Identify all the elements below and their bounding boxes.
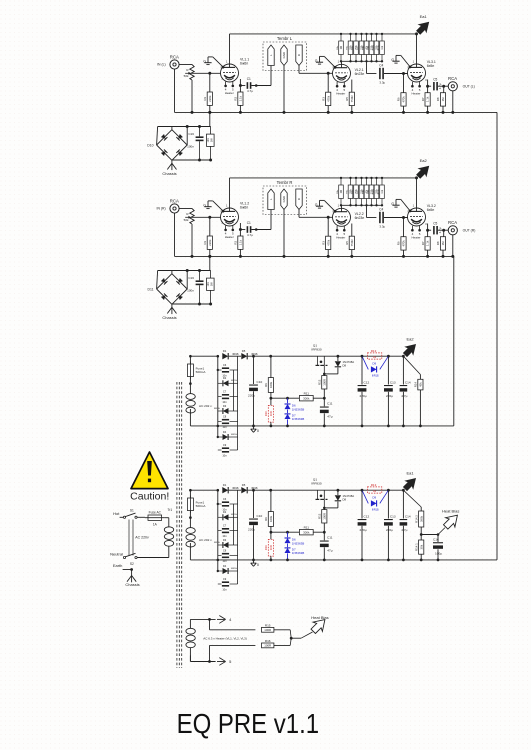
svg-text:R2: R2 <box>234 96 238 100</box>
svg-text:Heater: Heater <box>411 235 420 239</box>
wire C1 to Tembr send <box>251 85 271 87</box>
svg-text:100n: 100n <box>187 144 194 148</box>
svg-text:Ea2: Ea2 <box>420 158 428 163</box>
capacitor C5 4.7u output (channel 2) <box>433 226 435 234</box>
svg-text:AC 220v: AC 220v <box>135 536 149 540</box>
connector flag L send <box>268 189 274 210</box>
svg-text:10n: 10n <box>222 559 227 563</box>
svg-text:1N5363B: 1N5363B <box>292 551 305 555</box>
zener D7 1N5363B - blue (PSU1) <box>287 410 289 414</box>
wire PSU2 return riser to channel 1 ground <box>496 112 498 560</box>
wire bridge top vertex to rail <box>171 127 173 130</box>
resistor R11 300k (PSU2) <box>299 530 313 535</box>
svg-text:470k: 470k <box>326 239 330 246</box>
svg-text:D5: D5 <box>242 483 246 487</box>
wire VL3.2 anode to B+ rail <box>416 178 418 208</box>
svg-text:Caution!: Caution! <box>130 491 169 503</box>
capacitor C1 4.7u cathode out (channel 2) <box>247 226 249 233</box>
triode VL1.1 6ж6п input stage <box>221 64 239 82</box>
svg-text:100μ: 100μ <box>435 551 442 555</box>
wire RCA OUT ground lead <box>452 235 454 257</box>
capacitor C16 100n (channel 2) <box>196 280 204 282</box>
svg-text:Chassis: Chassis <box>162 171 176 176</box>
wire VL1.1 anode to B+ rail <box>229 34 231 64</box>
connector flag GND <box>281 45 287 66</box>
zener D7 1N5363B - blue (PSU2) <box>287 544 289 548</box>
svg-text:ФR1Б: ФR1Б <box>231 433 237 436</box>
connector Ea2 B+ output flag (PSU1) <box>402 355 405 358</box>
svg-text:D4: D4 <box>223 430 227 434</box>
svg-text:220k: 220k <box>208 239 212 246</box>
transformer core (laminations) <box>176 382 178 668</box>
svg-text:C5: C5 <box>433 78 437 82</box>
svg-text:470k: 470k <box>402 96 406 103</box>
svg-text:ФR1Б: ФR1Б <box>372 375 379 378</box>
capacitor C16 100u heat bias filter (PSU2) <box>437 535 439 543</box>
svg-text:50k: 50k <box>184 218 189 222</box>
svg-text:R16: R16 <box>265 639 271 643</box>
svg-text:AC 202 v: AC 202 v <box>199 404 212 408</box>
capacitor C1 4.7u cathode out (channel 1) <box>247 82 249 89</box>
wire VL3.2 cathode node <box>427 224 429 237</box>
rectifier snubber chain D2-D4 C6-C9 (PSU1) <box>217 356 219 437</box>
svg-text:C16: C16 <box>188 276 194 280</box>
resistor R9 100k (PSU2) <box>270 490 272 511</box>
svg-text:R1: R1 <box>203 96 207 100</box>
svg-text:Ea1: Ea1 <box>406 470 414 475</box>
svg-text:R9: R9 <box>264 517 268 521</box>
triode VL2.2 6н23п <box>333 208 351 226</box>
capacitor C16 100n (channel 1) <box>196 136 204 138</box>
svg-text:R7: R7 <box>421 241 425 245</box>
svg-text:1N5363B: 1N5363B <box>292 417 305 421</box>
svg-text:470k: 470k <box>326 95 330 102</box>
svg-text:R10: R10 <box>264 545 268 551</box>
chassis symbol (channel 1) <box>167 163 172 169</box>
svg-text:R: R <box>297 198 301 200</box>
svg-text:220k: 220k <box>208 95 212 102</box>
capacitor C14 4.7u (PSU1) <box>402 356 404 384</box>
svg-text:AC 6.3 v Heater (VL1, VL2, VL3: AC 6.3 v Heater (VL1, VL2, VL3) <box>203 637 247 641</box>
connector flag L send <box>268 45 274 66</box>
svg-text:R3: R3 <box>321 241 325 245</box>
heater pins VL1.1 <box>225 82 227 86</box>
svg-text:Ea1: Ea1 <box>420 14 428 19</box>
connector flag R return <box>296 45 302 66</box>
svg-text:47μ: 47μ <box>327 548 332 552</box>
resistor R1 220k grid leak (channel 2) <box>209 217 211 236</box>
resistor R8 1M output load (channel 2) <box>443 230 445 237</box>
svg-text:C6: C6 <box>223 363 227 367</box>
svg-text:ФR1Б: ФR1Б <box>214 541 220 544</box>
svg-text:4.7μ: 4.7μ <box>247 89 253 93</box>
svg-text:0: 0 <box>257 563 259 567</box>
zener D9 - blue (PSU1) <box>362 356 368 369</box>
svg-text:10n: 10n <box>222 453 227 457</box>
triode VL3.2 6э5п output stage <box>408 208 426 226</box>
wire VL2.2 cathode to R5 <box>351 224 353 237</box>
wire VL2.1 anode to EQ resistor bus <box>341 61 343 64</box>
svg-text:C14: C14 <box>405 514 411 518</box>
capacitor C13 220u (PSU1) <box>387 356 389 384</box>
box Tembr L tone stack <box>263 42 307 71</box>
fuse Fuse1 500mA secondary <box>189 356 191 364</box>
wire pot bottom to ground <box>191 224 193 256</box>
triode VL2.1 6н23п <box>333 64 351 82</box>
svg-text:D9: D9 <box>372 495 376 499</box>
svg-text:30k: 30k <box>419 544 423 549</box>
svg-text:C10: C10 <box>257 514 263 518</box>
resistor R10 10R optional - red (PSU2) <box>268 539 273 556</box>
svg-text:R11: R11 <box>304 392 310 396</box>
capacitor C14 4.7u (PSU2) <box>402 490 404 518</box>
wire PSU1 ground rail <box>190 425 453 427</box>
connector RCA IN (L) <box>170 60 179 69</box>
svg-text:10n: 10n <box>222 534 227 538</box>
svg-text:Heater: Heater <box>225 235 234 239</box>
connector Heat Bias output flag (PSU2) <box>444 515 458 529</box>
svg-text:R5: R5 <box>345 241 349 245</box>
svg-text:220μ: 220μ <box>248 528 255 532</box>
svg-text:RCA: RCA <box>448 76 457 81</box>
svg-text:AC 202 v: AC 202 v <box>199 538 212 542</box>
svg-text:220μ: 220μ <box>360 394 367 398</box>
wire VL1.1 cathode node <box>239 79 241 92</box>
svg-text:IN (R): IN (R) <box>157 207 166 211</box>
svg-text:S1: S1 <box>130 509 134 513</box>
heater pins VL3.1 <box>411 82 413 86</box>
svg-text:GND: GND <box>282 196 286 202</box>
svg-text:220μ: 220μ <box>360 528 367 532</box>
svg-text:IRF830: IRF830 <box>311 348 321 352</box>
wire: B+ anode rail channel 1 <box>230 33 417 35</box>
svg-text:100R: 100R <box>264 628 271 632</box>
svg-text:1N5363B: 1N5363B <box>292 407 305 411</box>
EQ anode resistor bank (8 resistors) channel 2 <box>340 178 342 185</box>
svg-text:1M: 1M <box>441 241 445 246</box>
svg-text:220μ: 220μ <box>386 528 393 532</box>
svg-text:Tembr R: Tembr R <box>277 180 293 185</box>
capacitor C5 4.7u output (channel 1) <box>433 82 435 90</box>
svg-text:C10: C10 <box>257 380 263 384</box>
svg-text:RCA: RCA <box>170 198 179 203</box>
svg-text:10n: 10n <box>222 425 227 429</box>
svg-text:C12: C12 <box>364 380 370 384</box>
svg-text:500mA: 500mA <box>196 504 207 508</box>
connector pin 4 arrow <box>217 618 225 620</box>
resistor R6 470k grid leak VL3 (channel 2) <box>403 218 405 237</box>
svg-text:R13: R13 <box>371 349 377 353</box>
wire Tembr return to VL2 grid <box>298 210 300 218</box>
svg-text:D8: D8 <box>343 364 347 368</box>
resistor R12 100R source (PSU1) <box>323 374 325 376</box>
svg-text:C6: C6 <box>223 497 227 501</box>
caution warning triangle <box>131 452 168 489</box>
wire gate reference (PSU1) <box>271 397 324 399</box>
svg-text:10n: 10n <box>222 587 227 591</box>
heater pins VL2.2 <box>336 226 338 230</box>
svg-text:C14: C14 <box>405 380 411 384</box>
svg-text:R14: R14 <box>414 382 418 388</box>
svg-text:Heat Bias: Heat Bias <box>311 615 328 620</box>
wire bus to coupling cap C4 <box>366 61 368 73</box>
wire bridge right vertex to rail <box>186 271 188 290</box>
svg-text:6ж6п: 6ж6п <box>240 206 248 210</box>
svg-text:220μ: 220μ <box>248 394 255 398</box>
wire VL2.1 cathode to R5 <box>351 80 353 93</box>
svg-text:6ж6п: 6ж6п <box>240 62 248 66</box>
svg-text:Ea2: Ea2 <box>406 336 414 341</box>
bridge rectifier D11 hum breaker <box>157 274 172 289</box>
connector Ea2 B+ flag (channel 2) <box>416 166 429 179</box>
zener D9 - blue (PSU2) <box>362 490 368 503</box>
wire bridge bottom rail <box>172 303 211 305</box>
svg-text:300k: 300k <box>303 396 310 400</box>
svg-text:R10: R10 <box>264 411 268 417</box>
wire C1 to Tembr send <box>251 229 271 231</box>
bridge rectifier D10 hum breaker <box>157 130 172 145</box>
potentiometer R volume 50k (channel 2) <box>190 209 194 225</box>
svg-text:D1: D1 <box>223 483 227 487</box>
resistor R13 1k optional - red (PSU2) <box>367 487 381 493</box>
resistor R17 10R 5W (channel 2) <box>207 278 215 290</box>
svg-text:C1: C1 <box>247 221 251 225</box>
svg-text:300k: 300k <box>303 530 310 534</box>
zener D8 1N4738A gate protection (PSU1) <box>337 356 339 361</box>
svg-text:GND: GND <box>282 52 286 58</box>
capacitor C4 3.3u coupling (channel 2) <box>379 212 381 223</box>
wire VL1.2 cathode node <box>239 223 241 236</box>
wire heater top lead to pin 4 <box>190 618 215 620</box>
svg-text:ФR1Б: ФR1Б <box>231 567 237 570</box>
svg-text:C11: C11 <box>327 536 333 540</box>
svg-text:1.1k: 1.1k <box>426 96 430 102</box>
svg-text:3.3μ: 3.3μ <box>379 80 385 84</box>
diode D5 rectifier (PSU2) <box>241 487 247 493</box>
wire pot bottom to ground <box>191 80 193 112</box>
svg-text:R: R <box>297 54 301 56</box>
svg-text:Heater: Heater <box>336 235 345 239</box>
wire PSU1 raw rail <box>190 355 218 357</box>
svg-text:C1: C1 <box>247 77 251 81</box>
wire pot wiper to grid of VL1 <box>191 216 221 218</box>
svg-text:R13: R13 <box>371 483 377 487</box>
svg-text:R15: R15 <box>265 623 271 627</box>
wire RCA to volume pot <box>179 64 192 66</box>
resistor R6 470k grid leak VL3 (channel 1) <box>403 74 405 93</box>
wire EQ bank bottom bus <box>341 60 382 62</box>
wire earth to chassis <box>123 569 132 571</box>
svg-text:390k: 390k <box>419 515 423 522</box>
triode VL3.1 6э5п output stage <box>408 64 426 82</box>
svg-text:Heat Bias: Heat Bias <box>442 509 459 514</box>
diode D1 rectifier (PSU2) <box>222 487 228 493</box>
svg-text:D3: D3 <box>223 404 227 408</box>
svg-text:100k: 100k <box>269 381 273 388</box>
zener D6 1N5363B - blue (PSU2) <box>287 532 289 537</box>
resistor R5 750R cathode (channel 1) <box>349 92 354 105</box>
svg-text:1.1k: 1.1k <box>239 95 243 101</box>
svg-text:R10x: R10x <box>372 188 374 194</box>
svg-text:45k: 45k <box>419 382 423 387</box>
svg-text:D1: D1 <box>223 349 227 353</box>
wire bus to coupling cap C4 <box>366 205 368 217</box>
svg-text:C12: C12 <box>364 514 370 518</box>
connector RCA OUT (L) <box>448 82 457 91</box>
wire VL3.1 anode to B+ rail <box>416 34 418 64</box>
wire ground rail drop to hum-breaker bridge <box>209 112 211 126</box>
svg-text:D5: D5 <box>242 349 246 353</box>
connector RCA OUT (R) <box>448 226 457 235</box>
svg-text:OUT (R): OUT (R) <box>463 229 476 233</box>
wire heater bottom lead to pin 5 <box>189 655 191 661</box>
svg-text:100n: 100n <box>187 288 194 292</box>
svg-text:100R: 100R <box>264 644 271 648</box>
svg-text:C13: C13 <box>390 380 396 384</box>
potentiometer R volume 50k (channel 1) <box>190 65 194 81</box>
svg-text:10R: 10R <box>269 545 273 550</box>
svg-text:EQ PRE v1.1: EQ PRE v1.1 <box>177 707 320 739</box>
svg-text:R9: R9 <box>264 383 268 387</box>
resistor R7 1.1k cathode (channel 1) <box>425 93 430 106</box>
capacitor C10 220u reservoir (PSU1) <box>253 356 255 384</box>
svg-text:2M: 2M <box>341 46 343 49</box>
svg-text:C8: C8 <box>223 549 227 553</box>
connector pin 5 arrow <box>217 661 225 663</box>
svg-text:OUT (L): OUT (L) <box>463 85 475 89</box>
capacitor C12 220u (PSU2) <box>361 490 363 518</box>
connector Ea1 B+ output flag (PSU2) <box>402 489 405 492</box>
svg-text:1M: 1M <box>441 97 445 102</box>
wire C5 to output RCA <box>438 85 448 87</box>
wire PSU2 ground rail <box>190 559 497 561</box>
chassis symbol mains earth <box>127 576 132 582</box>
box Tembr R tone stack <box>263 186 307 215</box>
svg-text:ФR1Б: ФR1Б <box>231 513 237 516</box>
triode VL1.2 6ж6п input stage <box>221 208 239 226</box>
wire heat bias tap <box>421 534 438 536</box>
svg-text:S2: S2 <box>130 562 134 566</box>
wire ground rail drop to hum-breaker bridge <box>209 256 211 270</box>
resistor R2 1.1k cathode (channel 2) <box>238 236 243 249</box>
svg-text:C13: C13 <box>390 514 396 518</box>
fuse Fuse AC 1A <box>148 515 162 520</box>
wire PSU1 return riser to channel 2 ground <box>453 256 455 426</box>
svg-text:R14.1: R14.1 <box>414 543 418 551</box>
svg-text:ФR1Б: ФR1Б <box>232 487 239 490</box>
svg-text:ФR1Б: ФR1Б <box>214 407 220 410</box>
svg-text:2M: 2M <box>341 190 343 193</box>
resistor R15 100R humdinger <box>209 619 211 629</box>
wire: ground rail channel 1 <box>175 111 498 113</box>
resistor R13 1k optional - red (PSU1) <box>367 353 381 359</box>
svg-text:220μ: 220μ <box>386 394 393 398</box>
resistor R10 10R optional - red (PSU1) <box>268 405 273 422</box>
rectifier snubber chain D2-D4 C6-C9 (PSU2) <box>217 490 219 571</box>
svg-text:D2: D2 <box>223 510 227 514</box>
resistor R17 10R 5W (channel 1) <box>207 134 215 146</box>
wire RCA IN ground lead <box>174 213 176 256</box>
zener D8 1N4738A gate protection (PSU2) <box>337 490 339 495</box>
wire PSU2 raw rail <box>190 489 218 491</box>
svg-text:R14.2: R14.2 <box>414 515 418 523</box>
svg-text:C5: C5 <box>433 222 437 226</box>
wire humdinger join <box>274 629 290 631</box>
resistor R7 1.1k cathode (channel 2) <box>425 237 430 250</box>
capacitor C4 3.3u coupling (channel 1) <box>379 68 381 79</box>
svg-text:ФR1Б: ФR1Б <box>232 353 239 356</box>
svg-text:1N5363B: 1N5363B <box>292 541 305 545</box>
resistor R14.1 30k heat bias divider lower (PSU2) <box>419 540 424 554</box>
svg-text:Heater: Heater <box>336 91 345 95</box>
transformer secondary winding HV 1 <box>189 377 191 394</box>
svg-text:C9: C9 <box>223 443 227 447</box>
svg-text:ФR1Б: ФR1Б <box>372 509 379 512</box>
ground 0 symbol (PSU1) <box>252 425 255 428</box>
wire bridge right vertex to rail <box>186 127 188 146</box>
svg-text:D2: D2 <box>223 376 227 380</box>
svg-text:C4: C4 <box>379 64 383 68</box>
resistor R14 45k bleeder (PSU1) <box>403 356 420 374</box>
resistor R8 1M output load (channel 1) <box>443 86 445 93</box>
zener D6 1N5363B - blue (PSU1) <box>287 398 289 403</box>
connector flag R return <box>296 189 302 210</box>
svg-text:C16: C16 <box>433 537 439 541</box>
svg-text:Heater: Heater <box>411 91 420 95</box>
svg-text:1k: 1k <box>373 355 377 359</box>
wire fuse to transformer primary <box>165 517 169 519</box>
svg-text:IN (L): IN (L) <box>157 63 165 67</box>
svg-text:6э5п: 6э5п <box>427 208 435 212</box>
transformer secondary winding HV 2 <box>189 511 191 528</box>
diode D5 rectifier (PSU1) <box>241 353 247 359</box>
capacitor C11 47u (PSU2) <box>323 532 325 540</box>
resistor R2 1.1k cathode (channel 1) <box>238 92 243 105</box>
switch S2 mains neutral <box>123 556 125 558</box>
svg-text:4.7μ: 4.7μ <box>247 233 253 237</box>
svg-text:Heater: Heater <box>225 91 234 95</box>
resistor R1 220k grid leak (channel 1) <box>209 73 211 92</box>
switch S1 mains hot <box>120 516 124 518</box>
heater pins VL2.1 <box>336 82 338 86</box>
wire S1 to AC fuse <box>137 516 145 518</box>
connector flag GND <box>281 189 287 210</box>
capacitor C10 220u reservoir (PSU2) <box>253 490 255 518</box>
wire RCA to volume pot <box>179 208 192 210</box>
svg-text:ФR1Б: ФR1Б <box>231 379 237 382</box>
wire: ground rail channel 2 <box>175 255 454 257</box>
svg-text:10R: 10R <box>269 411 273 416</box>
wire RCA IN ground lead <box>174 69 176 112</box>
wire bridge top rail (channel 1) <box>158 126 211 128</box>
wire bridge top rail (channel 2) <box>158 270 211 272</box>
wire EQ bank bottom bus <box>341 204 382 206</box>
svg-text:6э5п: 6э5п <box>427 64 435 68</box>
wire bridge top vertex to rail <box>171 271 173 274</box>
svg-text:R11: R11 <box>304 526 310 530</box>
svg-text:C9: C9 <box>223 577 227 581</box>
svg-text:500mA: 500mA <box>196 370 207 374</box>
capacitor C11 47u (PSU1) <box>323 398 325 406</box>
transformer heater winding 6.3V <box>189 619 191 628</box>
svg-text:D10: D10 <box>147 143 153 147</box>
svg-text:100R: 100R <box>322 379 326 386</box>
svg-text:750R: 750R <box>350 239 354 246</box>
svg-text:100R: 100R <box>322 513 326 520</box>
svg-text:D9: D9 <box>372 361 376 365</box>
svg-text:6н23п: 6н23п <box>355 72 365 76</box>
wire gate reference (PSU2) <box>271 531 324 533</box>
